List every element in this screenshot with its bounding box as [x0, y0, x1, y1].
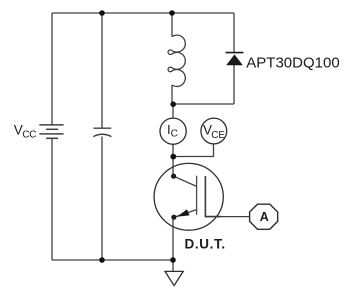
wire right vertical above diode — [233, 13, 235, 52]
svg-text:D.U.T.: D.U.T. — [185, 237, 226, 252]
wire gate to node A — [221, 216, 250, 218]
wire Ic meter top lead — [172, 104, 174, 119]
node junction: capacitor bottom at bottom bus — [99, 257, 105, 263]
junction dot collector inside — [171, 174, 176, 179]
wire inductor top lead — [171, 13, 173, 37]
svg-text:CC: CC — [22, 130, 36, 141]
gate bar and gate corner — [205, 176, 221, 217]
node junction: capacitor top at top bus — [99, 10, 105, 16]
wire top horizontal bus — [52, 12, 234, 14]
wire collector lead into DUT — [172, 157, 174, 177]
battery Vcc — [39, 125, 63, 138]
node junction: inductor bottom / diode anode loop — [170, 101, 176, 107]
capacitor C1 — [93, 128, 111, 136]
collector diagonal — [174, 176, 197, 186]
node A octagon — [250, 204, 278, 229]
meter Vce — [201, 118, 227, 144]
svg-text:A: A — [260, 210, 269, 224]
meter Ic — [160, 118, 186, 144]
node junction: inductor top at top bus — [169, 10, 175, 16]
junction dot emitter inside — [171, 215, 176, 220]
channel bar — [196, 176, 198, 215]
wire inductor bottom lead — [171, 85, 173, 104]
wire bottom horizontal bus — [52, 259, 173, 261]
node junction: Ic meter / Vce tap / collector — [170, 154, 176, 160]
wire emitter lead to bottom bus — [172, 217, 174, 260]
wire ground stem — [172, 260, 174, 271]
svg-text:APT30DQ100: APT30DQ100 — [246, 54, 339, 71]
wire right vertical below diode — [233, 65, 235, 104]
svg-text:C: C — [171, 129, 178, 140]
wire capacitor top lead — [101, 13, 103, 128]
ground — [165, 271, 183, 285]
emitter diagonal — [174, 210, 197, 218]
svg-text:CE: CE — [211, 130, 225, 141]
diode APT30DQ100 — [226, 53, 244, 66]
emitter arrowhead — [177, 209, 190, 217]
transistor Q1 (IGBT D.U.T.) — [154, 163, 223, 230]
wire Ic meter bottom lead — [172, 144, 174, 157]
wire horizontal diode-loop bottom — [173, 103, 234, 105]
wire Vce meter bottom L lead — [173, 144, 214, 157]
node junction: emitter at bottom bus / ground — [170, 257, 176, 263]
wire capacitor bottom lead — [101, 137, 103, 261]
wire left vertical lower (Vcc bottom lead) — [51, 139, 53, 261]
wire left vertical upper (Vcc top lead) — [51, 13, 53, 125]
inductor L1 — [168, 35, 185, 86]
